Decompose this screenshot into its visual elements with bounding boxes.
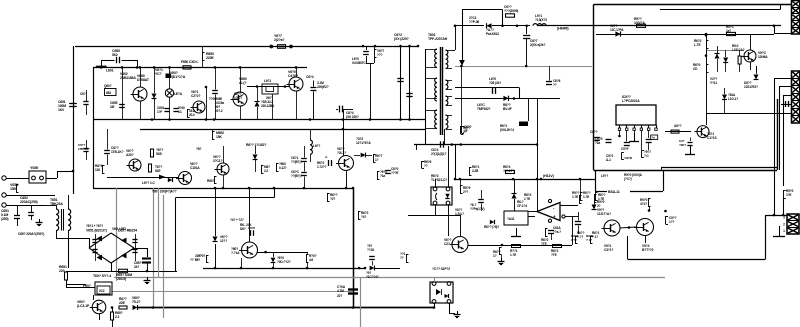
svg-text:F650 CXD L: F650 CXD L xyxy=(181,60,198,64)
svg-text:150: 150 xyxy=(10,187,16,191)
wire gray y66 xyxy=(455,66,592,68)
wire rail y129 xyxy=(140,129,426,131)
svg-text:(260.5): (260.5) xyxy=(116,277,126,281)
wires V666 xyxy=(215,244,217,268)
svg-text:22?: 22? xyxy=(337,294,342,298)
diode V903 xyxy=(615,31,620,36)
wire rail y119 xyxy=(93,119,426,121)
resistor R651 xyxy=(65,272,68,280)
svg-text:??: ?? xyxy=(400,256,404,260)
transistor V682 xyxy=(129,159,141,171)
inductor L601 xyxy=(96,66,106,67)
svg-text:L231?A?: L231?A? xyxy=(732,48,745,52)
svg-text:Q60?: Q60? xyxy=(104,84,112,88)
wire CN3 feed xyxy=(766,215,788,217)
svg-text:?a: ?a xyxy=(652,136,656,140)
svg-text:2.2: 2.2 xyxy=(115,315,119,319)
wire opamp in xyxy=(560,205,578,207)
bracket C903 xyxy=(665,216,667,224)
svg-text:C9?B: C9?B xyxy=(624,156,632,160)
svg-text:?6?: ?6? xyxy=(196,147,202,151)
terminal AC N xyxy=(2,193,6,197)
svg-text:12S17E2?: 12S17E2? xyxy=(744,85,758,89)
resistor R681 xyxy=(469,167,471,175)
svg-text:D768AT: D768AT xyxy=(137,78,150,82)
wire bridge out xyxy=(111,263,113,271)
svg-text:V651 (B2C3?): V651 (B2C3?) xyxy=(86,229,107,233)
wire gray horiz xyxy=(114,277,665,279)
capacitor C684 xyxy=(339,106,341,113)
resistor R688 xyxy=(460,126,462,134)
transistor V663 xyxy=(339,156,354,171)
svg-text:12J17?A?: 12J17?A? xyxy=(597,212,611,216)
svg-text:?2?: ?2? xyxy=(330,197,335,201)
inductor L701 xyxy=(533,24,546,26)
svg-text:?L5(X?2: ?L5(X?2 xyxy=(535,18,547,22)
box IC601 xyxy=(504,211,528,225)
transistor V661 xyxy=(217,163,229,175)
svg-text:1.?E: 1.?E xyxy=(510,253,516,257)
svg-text:?4?4.7?: ?4?4.7? xyxy=(503,169,514,173)
svg-text:?4?: ?4? xyxy=(361,215,366,219)
wire sec rail y145 xyxy=(414,144,537,146)
svg-text:(XX (220?: (XX (220? xyxy=(394,37,409,41)
capacitor C664 xyxy=(313,81,315,87)
resistor R905a xyxy=(706,41,708,49)
svg-text:YC?: YC? xyxy=(155,72,162,76)
resistor R672 xyxy=(545,228,547,236)
diode V906 xyxy=(756,66,758,74)
bracket C6F xyxy=(461,126,463,133)
svg-text:?1C??4?: ?1C??4? xyxy=(366,275,379,279)
resistor R652 xyxy=(119,269,128,273)
svg-text:4.7M: 4.7M xyxy=(337,289,344,293)
svg-text:TL?S21-C?: TL?S21-C? xyxy=(431,178,447,182)
svg-text:75-2?: 75-2? xyxy=(132,300,140,304)
op-amp IC602b xyxy=(537,203,560,221)
resistor R669 xyxy=(327,193,329,201)
svg-text:?TE: ?TE xyxy=(541,242,547,246)
box regulation outline xyxy=(594,4,792,6)
svg-text:120: 120 xyxy=(95,168,100,172)
resistor R903 xyxy=(727,32,736,35)
resistor R689 xyxy=(421,161,423,168)
capacitor C686 xyxy=(546,81,552,83)
svg-text:1?F: 1?F xyxy=(157,110,162,114)
svg-text:LE?A: LE?A xyxy=(174,92,183,96)
svg-text:BSA-11: BSA-11 xyxy=(608,190,620,194)
diode V665 xyxy=(213,237,218,242)
svg-text:2?(1)1(2(1?: 2?(1)1(2(1? xyxy=(431,152,447,156)
resistor R657 xyxy=(111,312,114,320)
capacitor C655 xyxy=(119,104,125,106)
terminal AC E xyxy=(2,203,6,207)
svg-text:L6??: L6?? xyxy=(313,144,320,148)
resistor R684h xyxy=(506,171,515,174)
svg-text:12C 1?PA: 12C 1?PA xyxy=(610,28,624,32)
svg-text:(?C?): (?C?) xyxy=(624,177,632,181)
svg-text:?.?1A: ?.?1A xyxy=(231,251,240,255)
photodiode LED xyxy=(165,89,173,97)
svg-text:1?: 1? xyxy=(375,158,379,162)
diode V670 xyxy=(490,220,494,224)
ground opto2 xyxy=(457,311,459,314)
svg-text:A-1: A-1 xyxy=(606,158,611,162)
wire V671 emitter xyxy=(468,245,572,247)
svg-text:V60! +2B?: V60! +2B? xyxy=(112,227,126,231)
resistor R694 xyxy=(553,245,562,248)
wire left column C651 xyxy=(73,46,75,194)
wire gray vert a xyxy=(116,188,118,277)
svg-text:(H64M): (H64M) xyxy=(557,27,569,31)
boxed part Q601 xyxy=(105,89,117,96)
wire gray vert b xyxy=(153,188,155,308)
wire drive y86 xyxy=(247,86,289,88)
svg-text:0.12?: 0.12? xyxy=(279,166,287,170)
resistor M6x xyxy=(261,165,263,173)
wire H11V xyxy=(455,179,595,181)
capacitor C64C xyxy=(301,172,307,174)
capacitor C671 xyxy=(481,190,483,199)
diode V907d xyxy=(724,88,726,94)
ground AC xyxy=(39,219,41,222)
resistor R610 xyxy=(187,109,189,117)
svg-text:?A31: ?A31 xyxy=(507,217,515,221)
svg-text:1KV: 1KV xyxy=(58,108,65,112)
wire box corner CN3 xyxy=(774,170,776,215)
svg-text:?2K?: ?2K? xyxy=(679,143,686,147)
svg-text:1?E: 1?E xyxy=(786,193,791,197)
junction dots rail188 xyxy=(214,187,217,190)
svg-text:L9??: L9?? xyxy=(601,174,608,178)
connector CN2 xyxy=(792,71,800,123)
svg-text:1??: 1?? xyxy=(669,220,674,224)
bridge rectifier V651 xyxy=(111,233,134,248)
svg-text:C1?1S: C1?1S xyxy=(707,136,717,140)
wire sec y87 xyxy=(455,87,519,89)
svg-text:?6?1 + ?6??: ?6?1 + ?6?? xyxy=(86,224,103,228)
wire BSA11 xyxy=(595,191,607,193)
wire v905 feed xyxy=(707,50,744,52)
resistor R686 xyxy=(102,165,104,173)
svg-text:1.?2: 1.?2 xyxy=(571,238,577,242)
resistor R689b xyxy=(460,185,462,193)
transformer T601 core xyxy=(440,47,442,135)
wire box top inner xyxy=(660,9,780,11)
svg-text:PaLK612: PaLK612 xyxy=(486,32,499,36)
wire vertical bus xyxy=(353,188,355,308)
svg-text:??(B?)?: ??(B?)? xyxy=(291,174,302,178)
svg-text:1.?2??: 1.?2?? xyxy=(317,165,327,169)
wire opamp out xyxy=(528,211,537,213)
wire AC top bus xyxy=(75,46,418,48)
junction dots bus308 xyxy=(152,306,155,309)
svg-text:P60?: P60? xyxy=(83,284,91,288)
svg-text:15K: 15K xyxy=(216,135,222,139)
capacitor C684s xyxy=(440,141,442,147)
transistor V607 xyxy=(92,300,106,314)
svg-text:0.01M57C: 0.01M57C xyxy=(352,61,366,65)
component L641 xyxy=(262,84,278,94)
svg-text:C2?-?: C2?-? xyxy=(444,242,453,246)
wire V663 down xyxy=(346,171,348,189)
capacitor C658 xyxy=(142,257,151,259)
svg-text:C6?: C6? xyxy=(80,92,86,96)
junction dots x400 xyxy=(399,45,402,48)
transistor V666 xyxy=(242,242,258,258)
capacitor C667 xyxy=(250,230,252,236)
wire gray relay xyxy=(112,291,353,293)
transistor V684 xyxy=(179,172,192,185)
capacitor C640 xyxy=(173,108,178,110)
svg-text:T60? 100(F?)A??: T60? 100(F?)A?? xyxy=(152,190,177,194)
wire hot ground bus xyxy=(93,188,353,190)
wire CN2 pin1 xyxy=(775,78,792,80)
svg-text:?C?? S1P?2: ?C?? S1P?2 xyxy=(432,267,450,271)
svg-text:C2?2?: C2?2? xyxy=(191,94,200,98)
wire CN2 pin2 xyxy=(780,86,792,88)
svg-text:2(2?a?: 2(2?a? xyxy=(274,38,284,42)
svg-text:? 1?: ? 1? xyxy=(586,238,592,242)
svg-text:562: 562 xyxy=(112,53,118,57)
capacitor C907 xyxy=(646,139,652,141)
svg-text:??a-?: ??a-? xyxy=(553,230,561,234)
svg-text:R6??: R6?? xyxy=(119,297,127,301)
capacitor C627 xyxy=(526,26,528,34)
smd R691 xyxy=(519,122,528,127)
resistor R696 xyxy=(575,237,577,244)
diode V901 xyxy=(486,23,491,28)
diode V608 xyxy=(133,305,138,310)
diode V620 xyxy=(503,96,508,101)
wire gray vert e xyxy=(158,188,160,277)
wire B+ feed xyxy=(452,50,455,52)
diode V664 xyxy=(361,153,366,158)
bracket C9B xyxy=(621,153,623,160)
capacitor C665 xyxy=(385,170,391,172)
IC901 xyxy=(616,105,656,125)
svg-text:C101A: C101A xyxy=(190,166,200,170)
svg-text:20.2: 20.2 xyxy=(189,113,195,117)
svg-text:?2L1?: ?2L1? xyxy=(337,151,346,155)
svg-text:R6?? 1?1.B2?: R6?? 1?1.B2? xyxy=(246,143,266,147)
junction dot x73 xyxy=(72,170,75,173)
svg-text:12?1?6?A: 12?1?6?A xyxy=(356,141,371,145)
svg-text:51E: 51E xyxy=(155,169,161,173)
svg-text:??0?: ??0? xyxy=(198,254,205,258)
diode V662 xyxy=(253,155,258,160)
svg-text:220AC(250): 220AC(250) xyxy=(20,200,38,204)
svg-text:1.2/4.?: 1.2/4.? xyxy=(455,212,464,216)
resistor R901 xyxy=(506,14,515,17)
svg-text:C9?F: C9?F xyxy=(621,147,629,151)
junction dots rail67 xyxy=(121,66,124,69)
svg-text:??Pa(1?V): ??Pa(1?V) xyxy=(470,207,485,211)
wire col x122 xyxy=(122,67,124,119)
resistor R670 xyxy=(358,211,360,219)
svg-text:X6?: X6? xyxy=(266,96,272,100)
resistor R663 xyxy=(214,177,216,184)
transistor V603 xyxy=(193,101,205,113)
svg-text:2(D1?1?A: 2(D1?1?A xyxy=(170,75,186,79)
ground V907 xyxy=(690,146,692,154)
junction dots h11v xyxy=(454,178,457,181)
resistor R671 xyxy=(306,254,308,262)
wire y215 xyxy=(408,215,460,217)
relay RL601 xyxy=(95,282,112,295)
zener V904b xyxy=(725,50,727,57)
diode V683 xyxy=(168,178,172,182)
wire dc feed xyxy=(273,187,276,190)
wire audio out xyxy=(627,236,629,259)
svg-text:220(E2?: 220(E2? xyxy=(317,85,329,89)
transistor V912 xyxy=(637,219,654,236)
capacitor C604 xyxy=(164,108,169,110)
wire AC L xyxy=(6,178,29,180)
wire y271 xyxy=(66,271,177,273)
svg-text:683: 683 xyxy=(106,91,111,95)
connector CN1 xyxy=(792,1,800,35)
svg-text:R6?? (?6)?: R6?? (?6)? xyxy=(484,225,499,229)
resistor V651 xyxy=(16,184,18,192)
svg-text:4.6: 4.6 xyxy=(309,258,313,262)
wire col x400 xyxy=(400,46,402,120)
svg-text:A20?: A20? xyxy=(126,153,134,157)
svg-text:C3?1?: C3?1? xyxy=(604,248,613,252)
resistor R6x22 xyxy=(206,256,208,263)
svg-text:?1a: ?1a xyxy=(380,174,385,178)
resistor R640 xyxy=(377,171,379,179)
wire col x409 xyxy=(409,46,411,120)
column snubline xyxy=(366,46,368,50)
capacitor C906 xyxy=(624,142,630,144)
capacitor C670 xyxy=(348,288,358,290)
capacitor C682 xyxy=(107,129,109,150)
wire y131 xyxy=(665,131,691,133)
transistor V680 xyxy=(133,87,147,101)
wire V607 base xyxy=(93,295,95,300)
svg-text:?? ??: ?? ?? xyxy=(190,258,198,262)
svg-text:220E: 220E xyxy=(206,56,214,60)
svg-text:24?: 24? xyxy=(134,265,139,269)
resistor R691b xyxy=(595,192,597,200)
resistor R913 xyxy=(783,190,785,198)
component V601 xyxy=(166,74,172,79)
wire B+ main xyxy=(537,25,781,27)
svg-text:(H11V): (H11V) xyxy=(543,174,554,178)
capacitor C663 xyxy=(328,160,330,166)
transformer T601 primary xyxy=(425,49,427,145)
capacitor C657 xyxy=(132,239,137,241)
svg-text:?2D-??2?: ?2D-??2? xyxy=(277,260,291,264)
svg-text:??: ?? xyxy=(424,164,428,168)
svg-text:1 ?E: 1 ?E xyxy=(524,197,530,201)
svg-text:22?.2: 22?.2 xyxy=(215,109,223,113)
diode V669 xyxy=(514,179,516,193)
wire bridge feed a xyxy=(56,238,89,240)
svg-text:2??: 2?? xyxy=(463,190,468,194)
svg-text:???(2009): ???(2009) xyxy=(504,9,518,13)
wire primary rail xyxy=(93,67,307,69)
svg-text:CF-1?4: CF-1?4 xyxy=(517,204,527,208)
resistor R695 xyxy=(499,248,501,255)
svg-text:C6?4: C6?4 xyxy=(306,75,314,79)
svg-text:(LC3-1P: (LC3-1P xyxy=(77,304,90,308)
diode V661d xyxy=(255,102,260,107)
svg-text:12N6A: 12N6A xyxy=(758,55,768,59)
wire IC pins xyxy=(619,130,621,136)
svg-text:L6?1: L6?1 xyxy=(264,79,271,83)
resistor R698 xyxy=(406,254,408,262)
svg-text:??(B?)?: ??(B?)? xyxy=(291,160,302,164)
svg-text:(XX 220?: (XX 220? xyxy=(346,115,359,119)
resistor R656 xyxy=(119,306,127,309)
resistor R690 xyxy=(580,192,582,200)
wire V666 emitter xyxy=(258,252,309,254)
wire hot box left edge xyxy=(93,67,95,188)
inductor L6xx xyxy=(310,140,312,154)
svg-text:T60? SY?-4: T60? SY?-4 xyxy=(93,274,111,278)
capacitor C641 xyxy=(301,158,307,160)
svg-text:1?: 1? xyxy=(493,254,497,258)
wire x528 down xyxy=(528,98,530,121)
capacitor C61A xyxy=(548,230,554,232)
spark gap Y601 xyxy=(270,45,273,48)
diode V667 xyxy=(271,258,276,263)
svg-text:2(XX a(2k?: 2(XX a(2k? xyxy=(530,43,545,47)
junction dots rail119 xyxy=(151,118,154,121)
svg-text:1.?E: 1.?E xyxy=(583,195,589,199)
wire V912 down xyxy=(645,236,647,244)
svg-text:2.2B: 2.2B xyxy=(472,169,479,173)
transistor V907 xyxy=(697,126,709,138)
svg-text:?4? + ?2?: ?4? + ?2? xyxy=(230,218,244,222)
resistor R905b xyxy=(706,64,708,72)
svg-text:BV-4F: BV-4F xyxy=(503,107,512,111)
ground R695 xyxy=(501,258,503,261)
wire C627 down xyxy=(526,48,528,66)
svg-text:L601: L601 xyxy=(106,69,114,73)
capacitor C905 xyxy=(606,139,612,141)
svg-text:2?C1?: 2?C1? xyxy=(213,159,222,163)
junction dots b+ xyxy=(454,25,457,28)
svg-text:Y650: Y650 xyxy=(30,166,38,170)
capacitor C6xx2 xyxy=(594,137,600,139)
transistor V911 xyxy=(604,220,620,236)
svg-text:1(X)(?A: 1(X)(?A xyxy=(634,21,645,25)
zener V904 xyxy=(717,46,719,53)
wire x774 join xyxy=(774,26,776,34)
svg-text:B?T??2: B?T??2 xyxy=(642,248,654,252)
resistor R910 xyxy=(579,195,581,203)
transistor V671 xyxy=(452,237,468,253)
wire diode line y98 xyxy=(455,98,560,100)
wire AC N xyxy=(6,195,55,197)
transistor V905 xyxy=(744,50,756,62)
svg-text:C65? 220A?(250?): C65? 220A?(250?) xyxy=(18,232,44,236)
terminal AC L xyxy=(2,176,6,180)
capacitor C681 xyxy=(83,101,88,103)
svg-text:?1a: ?1a xyxy=(595,141,600,145)
resistor R911 xyxy=(594,194,596,202)
svg-text:1M: 1M xyxy=(110,105,115,109)
ground CN3 xyxy=(779,226,781,236)
svg-text:L1G-1?: L1G-1? xyxy=(728,97,738,101)
svg-text:22E: 22E xyxy=(119,301,126,305)
wire x537 down xyxy=(537,98,539,211)
wire bottom bus xyxy=(137,307,434,309)
svg-text:220: 220 xyxy=(59,269,65,273)
